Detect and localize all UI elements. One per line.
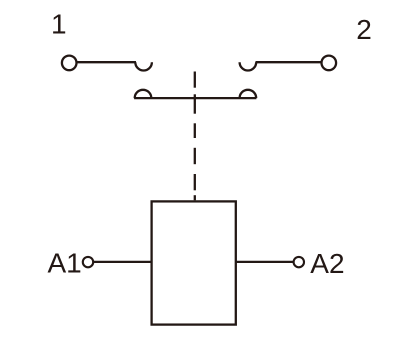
svg-text:1: 1 — [51, 8, 67, 39]
moving contact right (bump arc) — [240, 90, 257, 98]
svg-text:A1: A1 — [48, 247, 82, 278]
fixed contact right (arc) — [240, 62, 257, 70]
coil terminal circle A1 — [83, 257, 93, 267]
fixed contact left (arc) — [135, 62, 152, 70]
wire fixed contact to terminal 2 — [256, 61, 322, 63]
moving contact left (bump arc) — [135, 90, 152, 98]
terminal circle 2 — [322, 56, 337, 71]
wire A1 to coil — [93, 261, 151, 263]
svg-text:2: 2 — [356, 14, 372, 45]
wire coil to A2 — [236, 261, 294, 263]
mechanical link (dashed line) — [194, 72, 196, 201]
coil box K1 — [152, 201, 236, 324]
terminal circle 1 — [62, 56, 77, 71]
wire terminal 1 to fixed contact — [76, 61, 136, 63]
coil terminal circle A2 — [294, 257, 304, 267]
moving contact bridge bar — [134, 97, 256, 99]
svg-text:A2: A2 — [310, 248, 344, 279]
